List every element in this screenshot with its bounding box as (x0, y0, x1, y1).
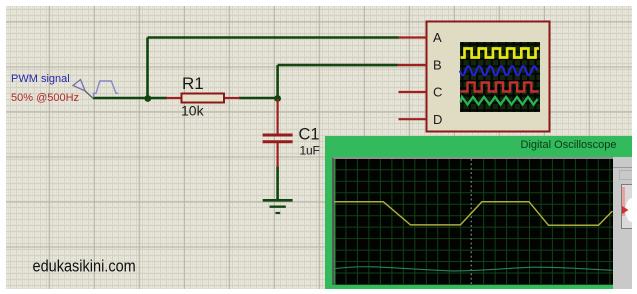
screen left bright gridline (333, 159, 335, 285)
wire top rail to oscilloscope channel A pin (148, 36, 399, 39)
mini screen blue sine wave (460, 66, 537, 75)
oscilloscope channel A pin (399, 36, 427, 38)
junction node N1 (144, 95, 151, 102)
channel B trace (faint green) (334, 267, 613, 271)
slider white glow (625, 198, 637, 222)
wire channel B rail to oscilloscope channel B pin (278, 64, 398, 67)
capacitor C1 bottom plate (263, 140, 293, 143)
white page margins (0, 0, 637, 6)
wire resistor R1 right pin to node N2 (239, 97, 278, 100)
slider track (621, 185, 632, 229)
mini screen green triangle wave (461, 97, 538, 105)
oscilloscope channel D pin (399, 118, 427, 120)
resistor R1 body (182, 94, 225, 103)
screen grid (334, 159, 613, 285)
junction node N2 (274, 95, 281, 102)
oscilloscope window (325, 136, 633, 289)
channel A trace (yellow filtered PWM) (334, 202, 613, 226)
capacitor C1 top pin (277, 99, 279, 134)
capacitor C1 bottom pin (277, 143, 279, 167)
slider pink stripe (622, 187, 625, 216)
oscilloscope channel B pin (398, 64, 427, 66)
slider red arrow (622, 206, 629, 214)
wire node N1 to resistor R1 left pin (147, 97, 167, 100)
wire node N1 up to top rail (146, 38, 149, 99)
mini screen yellow square wave (461, 49, 540, 58)
wire node N2 up to channel B rail (276, 65, 279, 98)
panel widget top (619, 171, 632, 180)
oscilloscope side control panel (613, 157, 633, 289)
mini screen red square wave (461, 83, 539, 92)
wire generator to node N1 (93, 97, 147, 100)
panel separator line (613, 167, 633, 169)
window title Digital Oscilloscope (521, 139, 617, 151)
generator G1 PWM source symbol (73, 80, 118, 99)
resistor R1 right pin stub (224, 97, 240, 99)
oscilloscope channel C pin (399, 91, 427, 93)
timebase cursor dashed line (470, 159, 472, 285)
oscilloscope mini screen (460, 42, 540, 112)
wire capacitor C1 bottom pin to ground (276, 167, 279, 201)
oscilloscope screen (332, 157, 613, 285)
capacitor C1 top plate (263, 134, 293, 137)
ground symbol (263, 200, 293, 213)
resistor R1 left pin stub (166, 97, 181, 99)
oscilloscope OSC1 component body (427, 22, 550, 132)
